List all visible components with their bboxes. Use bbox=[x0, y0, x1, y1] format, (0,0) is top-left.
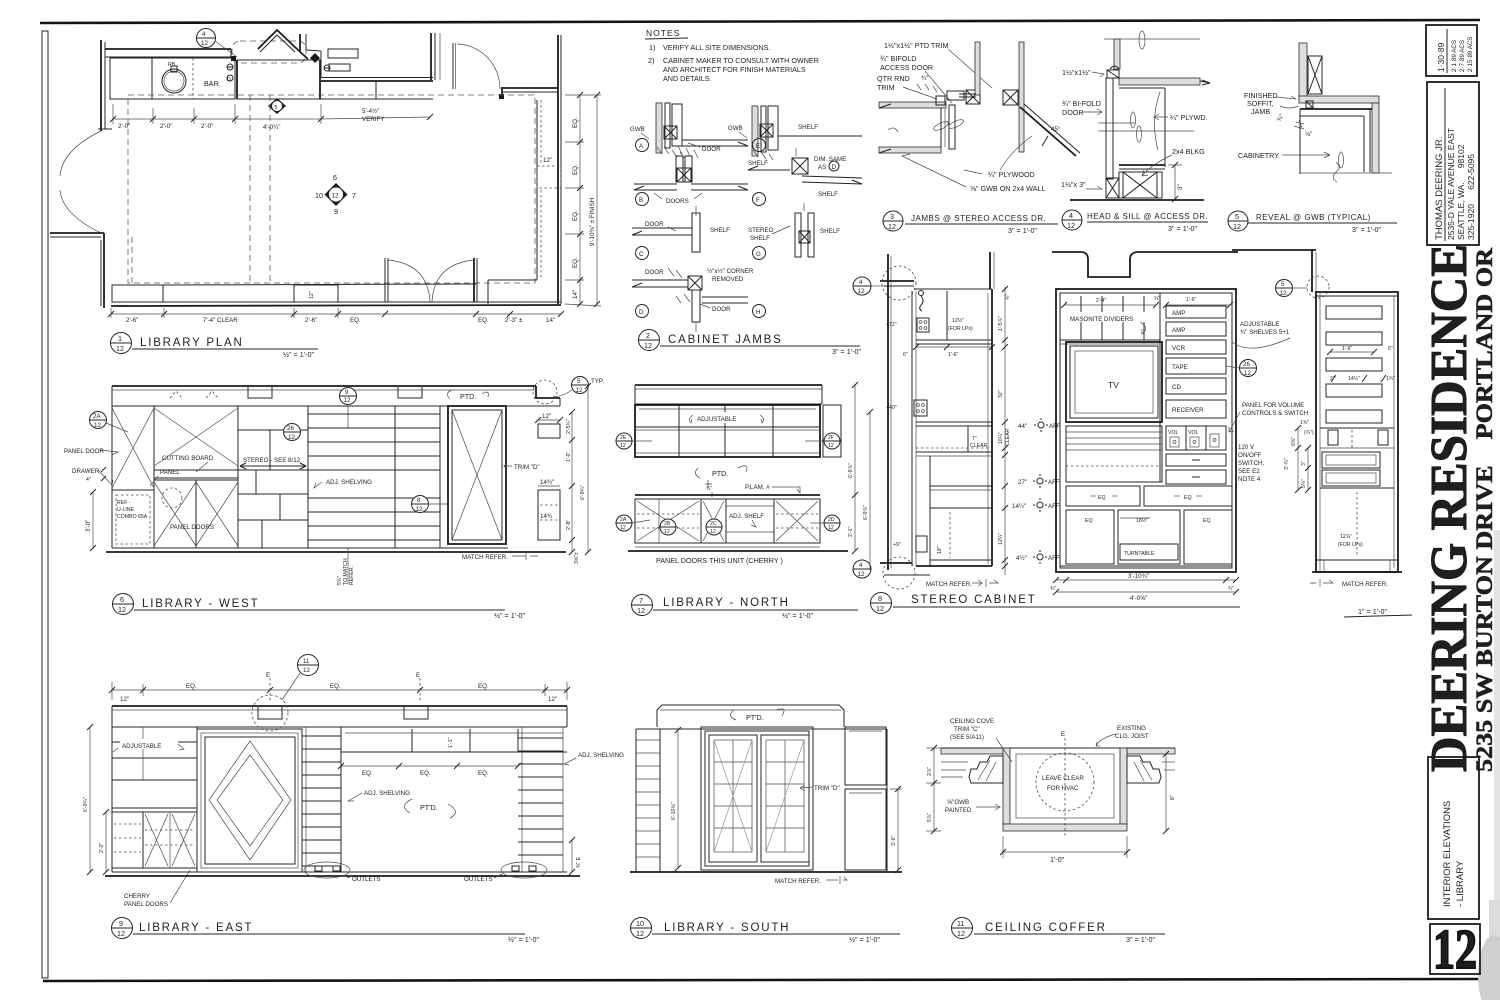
svg-text:2'-8": 2'-8" bbox=[566, 520, 572, 530]
left lower wall bbox=[50, 232, 104, 234]
svg-text:1·30·89: 1·30·89 bbox=[1436, 42, 1446, 72]
svg-text:12: 12 bbox=[1244, 370, 1251, 377]
title block: sheet number 12 bbox=[1430, 924, 1480, 974]
svg-text:U-LINE: U-LINE bbox=[117, 507, 135, 513]
svg-text:1'-6": 1'-6" bbox=[1342, 346, 1352, 352]
right wall bbox=[557, 35, 559, 304]
svg-text:12: 12 bbox=[288, 434, 295, 441]
sheet bottom border bbox=[43, 979, 1482, 981]
french doors bbox=[701, 727, 813, 870]
svg-text:18½": 18½" bbox=[1136, 517, 1148, 524]
svg-text:5'-4½": 5'-4½" bbox=[362, 108, 379, 115]
title 1/12 LIBRARY PLAN bbox=[111, 333, 132, 354]
svg-text:6: 6 bbox=[333, 173, 337, 182]
svg-text:3⅜"±: 3⅜"± bbox=[574, 552, 580, 564]
floor line bbox=[1070, 199, 1204, 201]
svg-text:7: 7 bbox=[639, 596, 643, 605]
svg-text:MATCH REFER.: MATCH REFER. bbox=[775, 878, 821, 885]
svg-text:TRIM: TRIM bbox=[877, 83, 895, 92]
svg-text:3'-¾": 3'-¾" bbox=[1284, 458, 1290, 470]
dims bbox=[677, 730, 679, 868]
svg-text:D: D bbox=[832, 164, 837, 171]
right dim strings bbox=[571, 412, 573, 552]
svg-text:LIBRARY - WEST: LIBRARY - WEST bbox=[142, 598, 259, 610]
svg-text:1¾": 1¾" bbox=[1386, 376, 1395, 382]
callout 26/12 bbox=[1240, 360, 1257, 377]
svg-text:5235 SW BURTON DRIVE PORTLA: 5235 SW BURTON DRIVE PORTLAND OR bbox=[1472, 248, 1497, 772]
svg-text:ACCESS DOOR: ACCESS DOOR bbox=[880, 63, 933, 72]
svg-text:TRIM "C": TRIM "C" bbox=[954, 726, 980, 733]
svg-text:⅜" E: ⅜" E bbox=[576, 856, 582, 868]
left overall dim bbox=[869, 412, 871, 570]
svg-text:4: 4 bbox=[859, 562, 863, 569]
gable bay in plan bbox=[258, 30, 297, 49]
svg-text:2'-0": 2'-0" bbox=[201, 123, 213, 130]
svg-text:3" = 1'-0": 3" = 1'-0" bbox=[1168, 224, 1198, 233]
plan right dimension strings bbox=[579, 95, 581, 304]
svg-text:PANEL FOR VOLUME: PANEL FOR VOLUME bbox=[1242, 402, 1304, 409]
jamb detail H bbox=[753, 305, 766, 318]
PTD script bbox=[404, 799, 412, 813]
right boxes bbox=[538, 419, 560, 421]
svg-text:12: 12 bbox=[664, 529, 670, 535]
callout 2A/12 bbox=[90, 412, 107, 429]
left dim cluster bbox=[1297, 428, 1299, 490]
cherry cabinet bbox=[112, 807, 197, 809]
svg-text:EXISTING: EXISTING bbox=[1117, 725, 1146, 732]
svg-text:⅝" GWB ON 2x4 WALL: ⅝" GWB ON 2x4 WALL bbox=[970, 184, 1045, 193]
typ callout 5/12 bbox=[533, 380, 557, 404]
svg-text:EQ.: EQ. bbox=[572, 117, 579, 128]
svg-text:VERIFY: VERIFY bbox=[362, 116, 384, 123]
svg-text:2'-5¾": 2'-5¾" bbox=[566, 419, 572, 434]
wall gwb band vertical bbox=[1299, 43, 1307, 101]
svg-text:9: 9 bbox=[334, 207, 338, 216]
svg-text:REF -: REF - bbox=[117, 500, 131, 506]
svg-text:325-1920 622-5095: 325-1920 622-5095 bbox=[1466, 154, 1476, 240]
wall base bbox=[880, 562, 912, 564]
svg-text:MASONITE DIVIDERS: MASONITE DIVIDERS bbox=[1070, 316, 1133, 323]
svg-text:SEE E2: SEE E2 bbox=[1238, 468, 1260, 475]
cabinet section bbox=[911, 291, 913, 566]
cabinet outer box bbox=[1056, 289, 1236, 572]
svg-text:4": 4" bbox=[86, 477, 91, 483]
title block: revision dates box bbox=[1426, 25, 1477, 76]
svg-text:5: 5 bbox=[275, 105, 278, 111]
right dim bbox=[1174, 165, 1176, 199]
svg-text:DRAWER: DRAWER bbox=[72, 468, 100, 475]
upper band across middle bbox=[341, 751, 567, 753]
svg-text:2E: 2E bbox=[620, 435, 627, 441]
left dims bbox=[89, 727, 91, 872]
coffer U bbox=[1003, 748, 1010, 824]
stereo cabinet front elevation : ceiling coffer profile bbox=[1052, 252, 1238, 277]
svg-text:1'-6": 1'-6" bbox=[1186, 297, 1196, 303]
svg-text:12: 12 bbox=[201, 40, 208, 47]
small diamond callout 5 bbox=[268, 98, 286, 114]
beam top bbox=[657, 705, 844, 727]
svg-text:CEILING COFFER: CEILING COFFER bbox=[985, 922, 1107, 934]
jamb detail G bbox=[795, 213, 801, 257]
base cabinets bbox=[635, 499, 820, 543]
svg-text:2535-D YALE AVENUE EAST: 2535-D YALE AVENUE EAST bbox=[1446, 128, 1456, 240]
svg-text:BAR: BAR bbox=[204, 79, 219, 88]
svg-text:12: 12 bbox=[1433, 919, 1477, 981]
svg-text:EQ: EQ bbox=[1184, 495, 1192, 501]
svg-text:VOL: VOL bbox=[1168, 430, 1178, 436]
svg-text:¾" SHELVES 5+1: ¾" SHELVES 5+1 bbox=[1240, 329, 1290, 336]
dashed ceiling outline bbox=[128, 95, 535, 283]
svg-text:1'-5⅞": 1'-5⅞" bbox=[998, 316, 1004, 331]
svg-text:SHELF: SHELF bbox=[820, 228, 840, 235]
svg-text:EQ.: EQ. bbox=[478, 683, 489, 690]
svg-text:10: 10 bbox=[315, 191, 323, 200]
svg-text:FOR HVAC: FOR HVAC bbox=[1047, 785, 1079, 792]
reveal trim block bbox=[1306, 101, 1313, 108]
bottom double doors bbox=[384, 258, 386, 302]
svg-text:2x4 BLKG: 2x4 BLKG bbox=[1172, 147, 1205, 156]
svg-text:2⅞": 2⅞" bbox=[927, 767, 933, 776]
svg-text:12: 12 bbox=[118, 605, 126, 614]
svg-text:DEERING RESIDENCE: DEERING RESIDENCE bbox=[1421, 244, 1478, 772]
crown band bbox=[112, 705, 567, 707]
svg-text:E: E bbox=[266, 672, 270, 679]
volume control panel bbox=[1166, 426, 1226, 450]
svg-text:3" = 1'-0": 3" = 1'-0" bbox=[1008, 226, 1038, 235]
svg-text:PAINTED: PAINTED bbox=[945, 807, 972, 814]
ceiling planes bbox=[941, 748, 1003, 754]
svg-text:2'-6": 2'-6" bbox=[305, 317, 317, 324]
svg-text:1'-0": 1'-0" bbox=[1050, 855, 1065, 864]
bottom bbox=[112, 871, 567, 873]
TV bay bbox=[1066, 342, 1162, 422]
svg-text:6'-9⅞": 6'-9⅞" bbox=[863, 505, 869, 520]
top dim string bbox=[112, 689, 567, 691]
svg-text:P.LAM. #: P.LAM. # bbox=[745, 484, 770, 491]
s1 fridge below bbox=[116, 495, 150, 544]
svg-text:6'-10⅛": 6'-10⅛" bbox=[671, 802, 677, 820]
lower gwb wall bbox=[879, 147, 941, 153]
jamb detail B bbox=[676, 156, 683, 182]
switch blocks bbox=[1320, 427, 1394, 429]
svg-text:4½": 4½" bbox=[1016, 555, 1027, 562]
svg-text:3'-0": 3'-0" bbox=[85, 520, 92, 532]
svg-text:PANEL DOORS THIS UNIT (CHERRY: PANEL DOORS THIS UNIT (CHERRY ) bbox=[656, 556, 783, 565]
svg-text:27": 27" bbox=[1018, 479, 1027, 486]
svg-text:SHELF: SHELF bbox=[710, 227, 730, 234]
bottom cabinet row bbox=[112, 285, 163, 302]
wide drawer row bbox=[1066, 486, 1140, 506]
svg-text:EQ.: EQ. bbox=[572, 210, 579, 221]
right shelf column bbox=[521, 727, 523, 872]
svg-text:DOOR: DOOR bbox=[645, 269, 664, 276]
svg-text:DOOR: DOOR bbox=[702, 146, 721, 153]
svg-text:CHERRY: CHERRY bbox=[124, 893, 150, 900]
svg-text:3": 3" bbox=[1177, 184, 1184, 190]
svg-text:TAPE: TAPE bbox=[1172, 364, 1188, 371]
stud wall with gwb faces bbox=[975, 42, 980, 95]
svg-text:1): 1) bbox=[649, 43, 655, 52]
svg-text:1½"x 3": 1½"x 3" bbox=[1061, 180, 1086, 189]
cutting board band bbox=[154, 469, 238, 471]
svg-text:¾": ¾" bbox=[1228, 586, 1234, 592]
title 2/12 CABINET JAMBS bbox=[639, 330, 660, 351]
svg-text:1½"x1½": 1½"x1½" bbox=[1062, 68, 1091, 77]
svg-text:D: D bbox=[639, 309, 644, 316]
bifold door leaf vertical bbox=[949, 105, 955, 149]
svg-text:NOTE 4: NOTE 4 bbox=[1238, 476, 1261, 483]
svg-text:10: 10 bbox=[636, 919, 644, 928]
title 7/12 bbox=[632, 595, 653, 616]
title block: sheet title box bbox=[1428, 757, 1479, 919]
svg-text:14½": 14½" bbox=[1348, 375, 1360, 382]
svg-text:12: 12 bbox=[828, 443, 834, 449]
svg-text:2): 2) bbox=[648, 56, 654, 65]
svg-text:12: 12 bbox=[828, 525, 834, 531]
ceiling line bbox=[1104, 38, 1200, 40]
title 6/12 bbox=[113, 594, 134, 615]
svg-text:12": 12" bbox=[309, 291, 315, 299]
plywood face bbox=[1164, 88, 1166, 167]
svg-text:45°: 45° bbox=[1051, 126, 1061, 133]
svg-text:(FOR LPs): (FOR LPs) bbox=[948, 326, 973, 332]
head trim bbox=[1110, 66, 1119, 69]
svg-text:AMP: AMP bbox=[1172, 310, 1185, 317]
svg-text:E: E bbox=[1061, 731, 1065, 738]
title block: architect box bbox=[1427, 82, 1479, 245]
svg-text:5: 5 bbox=[1281, 281, 1285, 288]
svg-text:¾" BI-FOLD: ¾" BI-FOLD bbox=[1062, 99, 1101, 108]
svg-text:5¼": 5¼" bbox=[1301, 479, 1307, 488]
svg-text:6'-9¾": 6'-9¾" bbox=[83, 797, 89, 812]
svg-text:3'-6": 3'-6" bbox=[891, 836, 897, 846]
base bbox=[1316, 559, 1398, 561]
svg-text:VCR: VCR bbox=[1172, 345, 1186, 352]
svg-text:3": 3" bbox=[1301, 461, 1307, 466]
svg-text:14": 14" bbox=[572, 290, 579, 299]
svg-text:3" = 1'-0": 3" = 1'-0" bbox=[1352, 225, 1382, 234]
svg-text:14¾: 14¾ bbox=[540, 513, 553, 520]
svg-text:2D: 2D bbox=[828, 517, 835, 523]
svg-text:VERIFY ALL SITE DIMENSIONS.: VERIFY ALL SITE DIMENSIONS. bbox=[663, 43, 770, 52]
wall above bbox=[1114, 39, 1120, 69]
wall section line bbox=[887, 254, 889, 570]
svg-text:2C: 2C bbox=[710, 521, 717, 527]
svg-text:½"x½" CORNER: ½"x½" CORNER bbox=[707, 268, 754, 275]
svg-text:AFF: AFF bbox=[1048, 503, 1060, 510]
svg-text:STEREO - SEE 8/12: STEREO - SEE 8/12 bbox=[243, 457, 301, 464]
counter right of opening bbox=[237, 60, 320, 99]
svg-text:6'-9¾": 6'-9¾" bbox=[580, 485, 586, 500]
upper shelf unit bbox=[635, 405, 820, 457]
svg-text:SWITCH,: SWITCH, bbox=[1238, 460, 1264, 467]
top-right niche walls bbox=[299, 34, 301, 51]
svg-text:4: 4 bbox=[859, 279, 863, 286]
svg-text:CLG. JOIST: CLG. JOIST bbox=[1115, 733, 1149, 740]
s2 panel doors bbox=[195, 480, 197, 548]
svg-text:12: 12 bbox=[1067, 221, 1075, 230]
bottom dims bbox=[1056, 579, 1236, 581]
svg-text:½" = 1'-0": ½" = 1'-0" bbox=[494, 611, 525, 620]
right cabinets bbox=[845, 727, 886, 785]
svg-text:¾": ¾" bbox=[921, 75, 928, 82]
svg-text:12: 12 bbox=[94, 422, 101, 429]
svg-text:EQ: EQ bbox=[1203, 518, 1211, 524]
svg-text:CEILING COVE: CEILING COVE bbox=[950, 718, 994, 725]
title 5/12 bbox=[1228, 211, 1248, 231]
small fixture symbols bbox=[227, 64, 233, 70]
svg-text:EQ.: EQ. bbox=[478, 770, 489, 777]
svg-text:120 V: 120 V bbox=[1238, 444, 1255, 451]
svg-text:2'-1": 2'-1" bbox=[848, 527, 854, 537]
soffit gwb band bbox=[1119, 78, 1200, 85]
PTD note bbox=[447, 390, 452, 399]
s2 x-panel upper bbox=[154, 408, 238, 466]
svg-text:1" = 1'-0": 1" = 1'-0" bbox=[1358, 607, 1388, 616]
svg-text:12: 12 bbox=[303, 667, 310, 674]
svg-text:E: E bbox=[416, 672, 420, 679]
plan bottom dimension string bbox=[111, 313, 561, 315]
svg-text:AS: AS bbox=[818, 164, 826, 171]
top LP shelf bbox=[946, 291, 948, 340]
svg-text:3'-10¾": 3'-10¾" bbox=[1128, 573, 1149, 580]
s1 x-panel bbox=[112, 408, 154, 488]
svg-text:G: G bbox=[756, 251, 761, 258]
gwb band left bbox=[879, 102, 946, 108]
svg-text:LIBRARY PLAN: LIBRARY PLAN bbox=[140, 337, 244, 349]
svg-text:ADJUSTABLE: ADJUSTABLE bbox=[122, 743, 161, 750]
svg-text:6": 6" bbox=[1388, 346, 1393, 352]
skylight dashed over bar bbox=[232, 41, 306, 63]
svg-text:EQ.: EQ. bbox=[572, 257, 579, 268]
svg-text:14¾": 14¾" bbox=[540, 479, 554, 486]
svg-text:12: 12 bbox=[957, 929, 965, 938]
svg-text:12: 12 bbox=[332, 193, 339, 200]
svg-text:LIBRARY - EAST: LIBRARY - EAST bbox=[139, 922, 253, 934]
svg-text:REMOVED: REMOVED bbox=[712, 276, 744, 283]
svg-text:1¾": 1¾" bbox=[1300, 420, 1309, 426]
svg-text:SHELF: SHELF bbox=[748, 160, 768, 167]
svg-text:6⅝": 6⅝" bbox=[1291, 437, 1297, 446]
svg-text:ADJ. SHELVING: ADJ. SHELVING bbox=[364, 790, 410, 797]
svg-text:12: 12 bbox=[636, 929, 644, 938]
svg-text:PT'D.: PT'D. bbox=[746, 713, 764, 722]
svg-text:CLEAR: CLEAR bbox=[1005, 428, 1011, 446]
mid outlet bbox=[914, 400, 927, 416]
svg-text:EQ.: EQ. bbox=[572, 164, 579, 175]
svg-text:AFF: AFF bbox=[1049, 423, 1061, 430]
title 3/12 bbox=[883, 211, 903, 231]
svg-text:12": 12" bbox=[542, 413, 551, 420]
svg-text:4: 4 bbox=[202, 31, 206, 38]
svg-text:26: 26 bbox=[1243, 361, 1250, 368]
svg-text:EQ.: EQ. bbox=[362, 770, 373, 777]
svg-text:+72": +72" bbox=[886, 322, 897, 328]
title 10/12 bbox=[631, 918, 652, 939]
svg-text:2'-4": 2'-4" bbox=[1096, 298, 1106, 304]
svg-text:AFF: AFF bbox=[1048, 479, 1060, 486]
svg-text:GWB: GWB bbox=[630, 126, 645, 133]
head x-box bbox=[1003, 90, 1018, 105]
svg-text:AND DETAILS.: AND DETAILS. bbox=[663, 74, 712, 83]
svg-text:32": 32" bbox=[998, 390, 1004, 398]
svg-text:LEAVE CLEAR: LEAVE CLEAR bbox=[1042, 775, 1084, 782]
svg-text:3: 3 bbox=[890, 212, 894, 221]
svg-text:7'-4" CLEAR: 7'-4" CLEAR bbox=[203, 317, 238, 324]
svg-text:DOOR: DOOR bbox=[712, 306, 731, 313]
counter shelves bbox=[916, 421, 992, 423]
svg-text:PANEL DOOR: PANEL DOOR bbox=[64, 448, 104, 455]
svg-text:D: D bbox=[227, 77, 231, 83]
svg-text:2·1·89 ACS: 2·1·89 ACS bbox=[1451, 40, 1458, 72]
svg-text:2F: 2F bbox=[828, 435, 834, 441]
svg-text:RB: RB bbox=[168, 62, 176, 68]
s4 adjustable shelves bbox=[308, 413, 440, 415]
svg-text:9'-10⅜" ± FINISH: 9'-10⅜" ± FINISH bbox=[589, 198, 596, 246]
EQ dims bbox=[341, 765, 518, 767]
svg-text:12: 12 bbox=[637, 606, 645, 615]
svg-text:11: 11 bbox=[957, 919, 964, 928]
cabinetry below bbox=[1300, 108, 1372, 110]
sheet top border bbox=[40, 20, 1480, 23]
callout 4/12 and detail circle top bbox=[853, 277, 871, 295]
svg-text:C: C bbox=[639, 251, 644, 258]
title 4/12 bbox=[1062, 210, 1082, 230]
svg-text:(¾"): (¾") bbox=[1304, 430, 1314, 436]
sheet left border bbox=[42, 31, 48, 978]
svg-text:1'-0": 1'-0" bbox=[566, 452, 572, 462]
svg-text:1'-6": 1'-6" bbox=[948, 352, 958, 358]
svg-text:8: 8 bbox=[417, 497, 421, 504]
PTD wall note bbox=[695, 468, 700, 478]
svg-text:8: 8 bbox=[878, 594, 882, 603]
left callout 2E bbox=[616, 433, 632, 449]
svg-text:ON/OFF: ON/OFF bbox=[1238, 452, 1262, 459]
svg-text:1: 1 bbox=[118, 334, 122, 343]
to match refer rotated note bbox=[347, 548, 349, 584]
svg-text:12": 12" bbox=[120, 696, 129, 703]
svg-text:PANEL: PANEL bbox=[160, 469, 180, 476]
svg-text:4'-0⅝": 4'-0⅝" bbox=[1130, 595, 1147, 602]
svg-text:¼" PLYWD.: ¼" PLYWD. bbox=[1170, 113, 1208, 122]
callout 9/12 on crown bbox=[340, 388, 357, 405]
svg-text:6": 6" bbox=[903, 352, 908, 358]
svg-text:2B: 2B bbox=[664, 521, 671, 527]
svg-text:¾" BIFOLD: ¾" BIFOLD bbox=[880, 54, 917, 63]
svg-text:EQ.: EQ. bbox=[478, 317, 489, 324]
ceiling stub bbox=[1232, 249, 1316, 251]
svg-text:REVEAL @ GWB (TYPICAL): REVEAL @ GWB (TYPICAL) bbox=[1256, 213, 1371, 222]
stud x-box bbox=[1308, 56, 1322, 94]
callout 26/12 bbox=[284, 424, 301, 441]
svg-text:12: 12 bbox=[117, 929, 125, 938]
callout 11/12 bbox=[298, 655, 319, 676]
svg-text:CUTTING BOARD: CUTTING BOARD bbox=[162, 455, 214, 462]
svg-text:DIM. SAME: DIM. SAME bbox=[814, 156, 846, 163]
svg-text:16¼": 16¼" bbox=[998, 432, 1004, 444]
svg-text:12": 12" bbox=[548, 696, 557, 703]
crown band bbox=[635, 384, 822, 386]
svg-text:EQ.: EQ. bbox=[350, 317, 361, 324]
svg-text:GWB: GWB bbox=[728, 125, 743, 132]
svg-text:PANEL DOORS: PANEL DOORS bbox=[124, 901, 168, 908]
svg-text:¾": ¾" bbox=[1005, 294, 1011, 300]
ceiling hook bbox=[919, 291, 924, 296]
svg-text:LIBRARY - NORTH: LIBRARY - NORTH bbox=[663, 597, 790, 609]
svg-text:12: 12 bbox=[710, 529, 716, 535]
jamb detail E bbox=[752, 106, 758, 156]
bottom callouts bbox=[616, 515, 632, 531]
